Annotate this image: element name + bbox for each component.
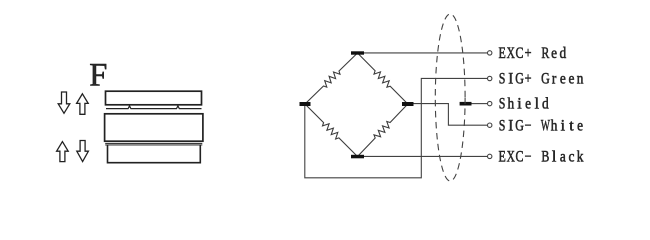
svg-text:e: e xyxy=(525,96,531,113)
svg-text:−: − xyxy=(525,148,532,166)
wire EXC- (bottom node to terminal) xyxy=(364,155,487,157)
svg-text:+: + xyxy=(525,45,532,63)
label EXC- Black xyxy=(498,148,584,166)
resistor R4 (bottom-right arm) xyxy=(358,104,408,157)
svg-text:d: d xyxy=(559,45,566,62)
label SIG+ Green xyxy=(499,70,584,88)
svg-text:h: h xyxy=(507,96,514,113)
svg-text:e: e xyxy=(560,71,566,88)
load cell base top double line xyxy=(105,143,202,145)
terminal EXC- xyxy=(488,154,492,158)
wire shield xyxy=(472,103,488,105)
svg-text:l: l xyxy=(535,96,540,113)
load cell body xyxy=(105,114,203,141)
force arrow up (bottom pair) xyxy=(57,142,69,162)
wire SIG+ (left node down, along bottom, up, to terminal) xyxy=(305,78,488,177)
resistor R2 (top-right arm) xyxy=(358,53,408,104)
svg-text:S: S xyxy=(499,95,506,113)
svg-text:d: d xyxy=(542,96,549,113)
svg-text:G: G xyxy=(515,70,524,88)
wire SIG- (right node right, down, to terminal) xyxy=(414,104,488,126)
svg-text:B: B xyxy=(541,148,549,166)
label Shield xyxy=(499,95,550,113)
svg-text:I: I xyxy=(508,117,513,134)
load cell top beam xyxy=(106,91,202,105)
svg-text:e: e xyxy=(551,45,557,62)
svg-text:S: S xyxy=(499,117,506,135)
terminal SIG+ xyxy=(488,76,492,80)
svg-text:S: S xyxy=(499,70,506,88)
wire EXC+ (top node to terminal) xyxy=(364,52,487,54)
svg-text:E: E xyxy=(498,45,505,63)
svg-text:−: − xyxy=(525,117,532,135)
svg-text:t: t xyxy=(569,118,574,135)
svg-text:r: r xyxy=(552,71,557,88)
node SIG- (right bridge node) xyxy=(402,102,414,106)
svg-text:F: F xyxy=(89,58,107,94)
svg-text:I: I xyxy=(508,70,513,87)
svg-text:e: e xyxy=(577,118,583,135)
terminal EXC+ xyxy=(488,51,492,55)
label SIG- White xyxy=(499,116,583,135)
terminal SIG- xyxy=(488,123,492,127)
svg-text:c: c xyxy=(568,149,574,166)
svg-text:W: W xyxy=(541,116,550,134)
shield stub bar xyxy=(460,102,472,106)
svg-text:k: k xyxy=(577,149,584,166)
node SIG+ (left bridge node) xyxy=(300,102,311,106)
load cell base xyxy=(108,145,201,163)
strain gauge line with ticks xyxy=(106,106,202,109)
svg-text:n: n xyxy=(577,71,584,88)
svg-text:X: X xyxy=(507,44,515,61)
svg-text:X: X xyxy=(507,148,515,165)
resistor R3 (bottom-left arm) xyxy=(305,104,358,157)
svg-text:G: G xyxy=(541,70,550,88)
svg-text:l: l xyxy=(552,149,557,166)
svg-text:a: a xyxy=(560,149,566,166)
node EXC+ (top bridge node) xyxy=(351,51,364,54)
label EXC+ Red xyxy=(498,44,566,62)
svg-text:R: R xyxy=(541,45,549,63)
terminal Shield xyxy=(488,101,492,105)
resistor R1 (top-left arm) xyxy=(305,53,358,104)
force arrow down (bottom pair) xyxy=(77,141,89,162)
svg-text:C: C xyxy=(516,45,524,63)
svg-text:h: h xyxy=(551,118,558,135)
svg-text:G: G xyxy=(515,117,524,135)
svg-text:i: i xyxy=(517,96,522,113)
cable bundle ellipse (dashed) xyxy=(435,14,465,181)
force arrow up (top pair) xyxy=(77,94,89,115)
svg-text:E: E xyxy=(498,148,505,166)
force arrow down (top left pair) xyxy=(58,92,70,113)
svg-text:i: i xyxy=(561,118,566,135)
node EXC- (bottom bridge node) xyxy=(351,155,364,159)
svg-text:e: e xyxy=(568,71,574,88)
svg-text:C: C xyxy=(516,148,524,166)
svg-text:+: + xyxy=(525,70,532,88)
